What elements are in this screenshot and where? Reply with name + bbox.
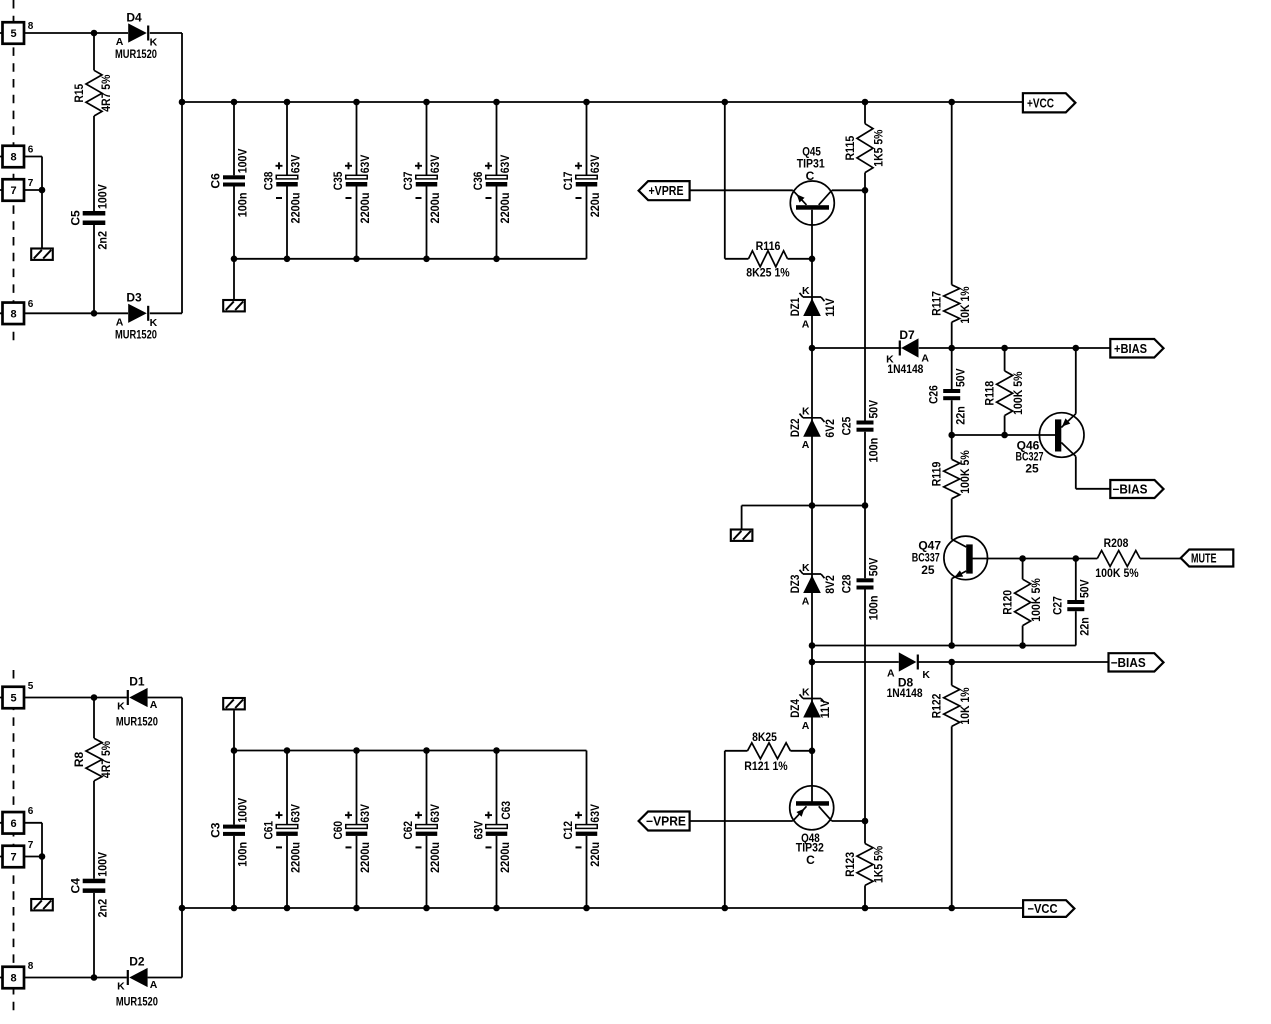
- svg-text:R15: R15: [72, 84, 86, 103]
- svg-text:A: A: [802, 318, 810, 330]
- svg-text:8: 8: [11, 152, 17, 164]
- svg-text:100K 5%: 100K 5%: [1029, 578, 1043, 622]
- svg-text:4R7 5%: 4R7 5%: [99, 74, 113, 111]
- svg-text:R208: R208: [1104, 536, 1129, 550]
- svg-text:22n: 22n: [953, 406, 967, 425]
- svg-text:DZ1: DZ1: [788, 297, 802, 316]
- svg-text:25: 25: [1025, 461, 1039, 475]
- svg-text:63V: 63V: [428, 155, 442, 174]
- svg-text:C27: C27: [1050, 596, 1064, 615]
- svg-text:R116: R116: [756, 239, 781, 253]
- svg-text:D4: D4: [126, 10, 142, 24]
- svg-text:63V: 63V: [498, 155, 512, 174]
- svg-text:7: 7: [28, 840, 34, 851]
- svg-text:7: 7: [11, 852, 17, 864]
- svg-text:MUR1520: MUR1520: [116, 995, 158, 1009]
- svg-text:+BIAS: +BIAS: [1114, 342, 1147, 356]
- svg-text:50V: 50V: [1077, 579, 1091, 598]
- svg-text:100n: 100n: [236, 842, 250, 867]
- svg-text:7: 7: [28, 178, 34, 189]
- svg-text:C62: C62: [401, 821, 415, 840]
- svg-text:2n2: 2n2: [96, 899, 110, 918]
- svg-text:R121 1%: R121 1%: [744, 759, 788, 773]
- svg-text:MUR1520: MUR1520: [115, 47, 157, 61]
- svg-text:2200u: 2200u: [498, 842, 512, 873]
- svg-text:5: 5: [28, 681, 34, 692]
- svg-text:100V: 100V: [236, 149, 250, 174]
- svg-text:K: K: [802, 686, 810, 698]
- svg-text:2n2: 2n2: [96, 231, 110, 250]
- svg-text:−VCC: −VCC: [1028, 902, 1058, 916]
- svg-text:6V2: 6V2: [823, 419, 837, 438]
- svg-text:A: A: [802, 439, 810, 451]
- svg-text:50V: 50V: [953, 368, 967, 387]
- svg-text:−VPRE: −VPRE: [646, 815, 686, 829]
- svg-text:K: K: [117, 980, 125, 992]
- svg-text:2200u: 2200u: [289, 193, 303, 224]
- svg-text:K: K: [802, 285, 810, 297]
- svg-text:220u: 220u: [588, 842, 602, 867]
- svg-text:100n: 100n: [867, 596, 881, 621]
- svg-text:2200u: 2200u: [358, 193, 372, 224]
- svg-text:1K5 5%: 1K5 5%: [872, 129, 886, 166]
- svg-text:11V: 11V: [818, 700, 832, 719]
- svg-text:1K5 5%: 1K5 5%: [872, 846, 886, 883]
- svg-text:A: A: [802, 720, 810, 732]
- svg-text:C5: C5: [69, 210, 83, 226]
- svg-text:R118: R118: [983, 381, 997, 406]
- svg-text:22n: 22n: [1077, 617, 1091, 636]
- svg-text:63V: 63V: [289, 155, 303, 174]
- svg-text:6: 6: [28, 145, 34, 156]
- svg-text:8: 8: [11, 308, 17, 320]
- svg-text:C12: C12: [561, 821, 575, 840]
- svg-text:8: 8: [28, 961, 34, 972]
- svg-text:2200u: 2200u: [428, 193, 442, 224]
- svg-text:10K 1%: 10K 1%: [958, 286, 972, 323]
- svg-text:C4: C4: [69, 878, 83, 894]
- svg-text:R115: R115: [843, 135, 857, 160]
- svg-text:63V: 63V: [588, 155, 602, 174]
- svg-text:8K25 1%: 8K25 1%: [746, 265, 790, 279]
- svg-text:C61: C61: [262, 821, 276, 840]
- svg-text:100K 5%: 100K 5%: [1095, 566, 1139, 580]
- svg-text:D3: D3: [126, 291, 142, 305]
- svg-text:MUR1520: MUR1520: [115, 327, 157, 341]
- svg-text:C25: C25: [840, 417, 854, 436]
- svg-text:C36: C36: [471, 171, 485, 190]
- svg-text:63V: 63V: [358, 155, 372, 174]
- svg-text:R117: R117: [930, 291, 944, 316]
- svg-text:R123: R123: [843, 852, 857, 877]
- svg-text:5: 5: [11, 693, 17, 705]
- svg-text:8K25: 8K25: [752, 730, 777, 744]
- svg-text:K: K: [117, 700, 125, 712]
- svg-text:A: A: [150, 979, 158, 991]
- svg-text:6: 6: [28, 299, 34, 310]
- svg-text:C38: C38: [262, 171, 276, 190]
- svg-text:63V: 63V: [428, 804, 442, 823]
- svg-text:DZ2: DZ2: [788, 418, 802, 437]
- svg-text:50V: 50V: [867, 558, 881, 577]
- svg-text:C28: C28: [840, 574, 854, 593]
- svg-text:C17: C17: [561, 171, 575, 190]
- svg-text:4R7 5%: 4R7 5%: [99, 741, 113, 778]
- svg-text:2200u: 2200u: [428, 842, 442, 873]
- svg-text:C37: C37: [401, 171, 415, 190]
- svg-text:C3: C3: [209, 822, 223, 838]
- svg-text:10K 1%: 10K 1%: [958, 687, 972, 724]
- svg-text:63V: 63V: [289, 804, 303, 823]
- svg-text:K: K: [802, 562, 810, 574]
- svg-text:63V: 63V: [472, 821, 486, 840]
- svg-text:DZ4: DZ4: [788, 699, 802, 718]
- svg-text:C26: C26: [926, 385, 940, 404]
- svg-text:D1: D1: [129, 675, 145, 689]
- svg-text:DZ3: DZ3: [788, 574, 802, 593]
- svg-text:2200u: 2200u: [289, 842, 303, 873]
- svg-text:6: 6: [11, 818, 17, 830]
- svg-text:8: 8: [28, 21, 34, 32]
- svg-text:5: 5: [11, 28, 17, 40]
- svg-text:1N4148: 1N4148: [887, 362, 923, 376]
- svg-text:100K 5%: 100K 5%: [1011, 371, 1025, 415]
- svg-text:MUTE: MUTE: [1191, 552, 1217, 566]
- svg-text:C6: C6: [209, 173, 223, 189]
- svg-text:11V: 11V: [823, 298, 837, 317]
- svg-text:1N4148: 1N4148: [887, 686, 923, 700]
- svg-text:7: 7: [11, 185, 17, 197]
- svg-text:2200u: 2200u: [498, 193, 512, 224]
- svg-text:8: 8: [11, 973, 17, 985]
- svg-text:+VCC: +VCC: [1027, 96, 1054, 110]
- svg-text:100V: 100V: [96, 852, 110, 877]
- svg-text:C35: C35: [331, 171, 345, 190]
- svg-text:25: 25: [921, 563, 935, 577]
- svg-text:6: 6: [28, 806, 34, 817]
- svg-text:A: A: [887, 667, 895, 679]
- svg-text:100V: 100V: [96, 184, 110, 209]
- svg-text:63V: 63V: [588, 804, 602, 823]
- svg-text:R120: R120: [1001, 590, 1015, 615]
- svg-text:−BIAS: −BIAS: [1111, 656, 1146, 670]
- svg-text:C: C: [806, 169, 815, 183]
- svg-text:220u: 220u: [588, 193, 602, 218]
- svg-text:R8: R8: [72, 752, 86, 768]
- svg-text:100n: 100n: [867, 438, 881, 463]
- svg-text:63V: 63V: [358, 804, 372, 823]
- svg-text:K: K: [922, 669, 930, 681]
- svg-text:100n: 100n: [236, 193, 250, 218]
- svg-text:C: C: [806, 853, 815, 867]
- svg-text:100V: 100V: [236, 798, 250, 823]
- svg-text:C60: C60: [331, 821, 345, 840]
- svg-text:50V: 50V: [867, 400, 881, 419]
- svg-text:D7: D7: [899, 328, 915, 342]
- svg-text:A: A: [150, 699, 158, 711]
- svg-text:−BIAS: −BIAS: [1113, 483, 1148, 497]
- svg-text:R122: R122: [930, 693, 944, 718]
- svg-text:D2: D2: [129, 955, 145, 969]
- svg-text:K: K: [802, 406, 810, 418]
- svg-text:2200u: 2200u: [358, 842, 372, 873]
- svg-text:8V2: 8V2: [823, 575, 837, 594]
- svg-text:A: A: [802, 595, 810, 607]
- svg-text:R119: R119: [930, 461, 944, 486]
- svg-text:+VPRE: +VPRE: [649, 184, 684, 198]
- svg-text:100K 5%: 100K 5%: [958, 450, 972, 494]
- svg-text:MUR1520: MUR1520: [116, 715, 158, 729]
- svg-text:C63: C63: [499, 801, 513, 820]
